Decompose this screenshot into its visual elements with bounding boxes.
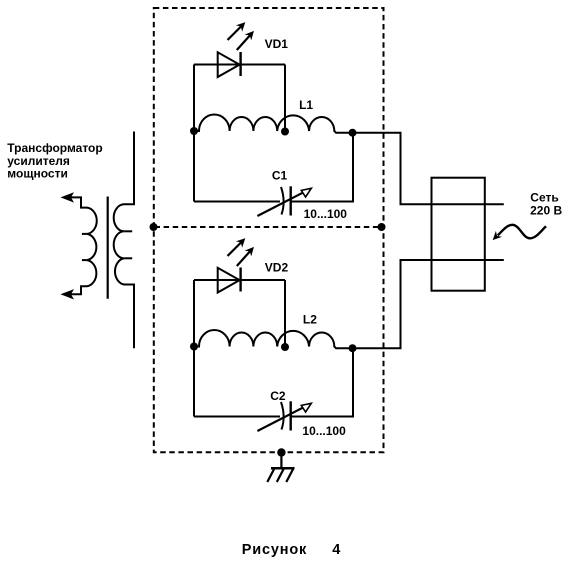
svg-text:мощности: мощности — [7, 166, 68, 180]
transformer T1 core — [107, 197, 109, 299]
wire lower-left vertical — [193, 280, 195, 417]
svg-text:Рисунок: Рисунок — [242, 542, 307, 558]
inductor L1 — [194, 115, 353, 133]
transformer T1 secondary winding (left) — [64, 197, 97, 294]
divider dashed line (mid net) — [155, 226, 384, 228]
wire VD2 cathode to L2 tap — [284, 280, 286, 347]
LED arrow VD1 a — [228, 23, 245, 40]
capacitor C2 (variable) — [281, 401, 291, 430]
svg-text:Трансформатор: Трансформатор — [7, 141, 102, 155]
wire C2 bottom loop left — [194, 416, 280, 418]
node L2 right junction — [349, 344, 357, 352]
node L1 right junction — [349, 129, 357, 137]
svg-text:10...100: 10...100 — [304, 207, 348, 221]
capacitor C1 (variable) — [281, 186, 291, 215]
svg-text:C2: C2 — [270, 389, 286, 403]
wire C1 bottom loop right — [292, 133, 354, 202]
wire VD1 anode row — [194, 64, 285, 66]
svg-text:4: 4 — [332, 542, 340, 558]
block mains filter rectangle — [432, 178, 485, 291]
wire C1 bottom loop left — [194, 201, 280, 203]
wire C2 bottom loop right — [292, 348, 354, 416]
svg-text:220 В: 220 В — [530, 204, 562, 218]
ground — [267, 453, 294, 483]
node divider-left junction — [150, 223, 158, 231]
node divider-right junction — [378, 223, 386, 231]
enclosure dashed box — [154, 8, 384, 452]
svg-text:VD1: VD1 — [265, 37, 289, 51]
svg-text:Сеть: Сеть — [530, 190, 558, 204]
node L1 left junction — [190, 127, 198, 135]
arrow secondary top lead — [61, 192, 75, 202]
svg-text:L2: L2 — [303, 313, 317, 327]
LED arrow VD1 b — [237, 32, 253, 50]
arrow secondary bottom lead — [61, 289, 75, 299]
arrow mains squiggle — [494, 225, 547, 240]
svg-text:C1: C1 — [272, 169, 288, 183]
wire mains lower — [353, 260, 504, 348]
LED arrow VD2 b — [237, 248, 253, 266]
node L2 left junction — [190, 343, 198, 351]
svg-text:L1: L1 — [299, 98, 313, 112]
wire VD2 anode row — [194, 279, 285, 281]
node L1 tap junction — [281, 128, 289, 136]
LED arrow VD2 a — [228, 239, 245, 256]
node L2 tap junction — [281, 343, 289, 351]
diode VD2 — [218, 268, 241, 293]
wire upper-left vertical — [193, 65, 195, 202]
ground node junction — [277, 448, 285, 456]
transformer T1 primary winding (right) — [114, 132, 134, 349]
wire mains upper — [353, 133, 504, 205]
arrow C1 adjuster — [257, 188, 311, 216]
diode VD1 — [218, 52, 241, 77]
inductor L2 — [194, 330, 353, 348]
svg-text:10...100: 10...100 — [302, 424, 346, 438]
wire VD1 cathode to L1 tap — [284, 65, 286, 132]
svg-text:VD2: VD2 — [265, 260, 289, 274]
arrow C2 adjuster — [257, 403, 311, 431]
